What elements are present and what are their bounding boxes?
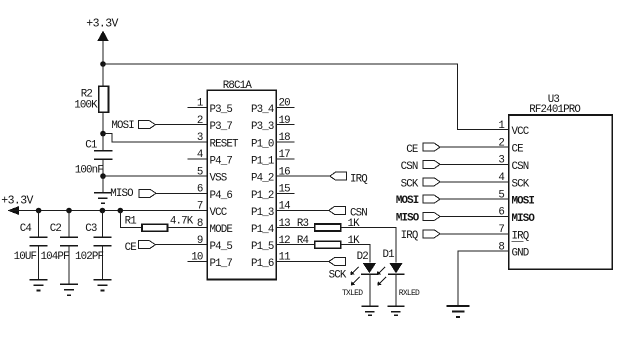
connector MOSI (to U3 pin 5): [396, 195, 440, 207]
svg-text:P4_2: P4_2: [251, 173, 274, 185]
junction C3 on rail: [100, 208, 106, 214]
junction C (VSS node below C1): [100, 173, 106, 179]
svg-text:4: 4: [197, 149, 203, 161]
wire VSS node down to ground: [102, 176, 104, 193]
wire MOSI to pin 2 P3_7: [155, 124, 207, 126]
svg-text:P1_1: P1_1: [251, 156, 274, 168]
connector CE (to U3 pin 2): [406, 143, 440, 156]
svg-text:MOSI: MOSI: [111, 120, 134, 132]
svg-text:17: 17: [279, 149, 291, 161]
capacitor C3: [93, 211, 111, 280]
svg-text:5: 5: [197, 166, 203, 178]
junction B (RESET node): [100, 131, 106, 137]
svg-text:SCK: SCK: [329, 269, 347, 281]
connector MISO (to R8C1A pin 6): [110, 188, 156, 200]
wire D1 cathode to ground: [395, 274, 397, 306]
svg-text:+3.3V: +3.3V: [1, 195, 33, 208]
svg-text:10: 10: [191, 252, 203, 264]
svg-text:20: 20: [279, 98, 291, 110]
svg-text:R4: R4: [297, 235, 309, 247]
capacitor C2: [60, 211, 78, 285]
ground (C3): [93, 280, 111, 291]
wire D2 cathode to ground: [369, 274, 371, 306]
wire pin 11 P1_6 to SCK connector: [276, 261, 329, 263]
svg-text:MISO: MISO: [110, 188, 133, 200]
svg-text:P1_7: P1_7: [210, 258, 233, 270]
connector CSN (to U3 pin 3): [401, 160, 440, 173]
ground (D2): [361, 306, 378, 315]
svg-text:RF2401PRO: RF2401PRO: [529, 104, 580, 116]
svg-text:5: 5: [498, 189, 504, 201]
svg-text:CSN: CSN: [401, 161, 418, 173]
svg-text:MOSI: MOSI: [512, 196, 535, 208]
connector CE (to R8C1A pin 9): [125, 241, 156, 255]
svg-text:R3: R3: [297, 218, 309, 230]
resistor R2: [99, 86, 109, 112]
svg-text:RXLED: RXLED: [399, 289, 420, 298]
wire pin 13 to R3: [276, 227, 315, 229]
junction C2 on rail: [66, 208, 72, 214]
svg-text:P1_6: P1_6: [251, 258, 274, 270]
wire pin 12 to R4: [276, 244, 315, 246]
wire top rail from junction A to U3 pin1 VCC: [103, 64, 509, 130]
svg-text:IRQ: IRQ: [512, 230, 529, 242]
svg-text:P4_7: P4_7: [210, 156, 233, 168]
resistor R1: [142, 224, 168, 231]
svg-text:R8C1A: R8C1A: [223, 80, 253, 92]
svg-text:SCK: SCK: [401, 179, 419, 191]
svg-text:VCC: VCC: [210, 207, 228, 219]
IC U2 R8C1A box: [207, 90, 276, 279]
LED D1: [377, 249, 405, 285]
ground (U3 GND): [447, 306, 470, 317]
connector SCK (to U3 pin 4): [401, 178, 440, 191]
wire MISO to U3 pin 6: [440, 216, 509, 218]
wire rail junction down to R1: [120, 211, 142, 228]
svg-text:2: 2: [498, 137, 504, 149]
capacitor C4: [30, 211, 48, 280]
junction A (top rail / R2 top): [100, 61, 106, 67]
LED D2: [350, 251, 378, 286]
svg-text:R1: R1: [125, 216, 137, 228]
svg-text:C1: C1: [85, 140, 97, 152]
svg-text:P1_3: P1_3: [251, 207, 274, 219]
svg-text:P3_7: P3_7: [210, 121, 233, 133]
connector IRQ (from pin 16): [330, 172, 368, 185]
svg-text:P4_6: P4_6: [210, 190, 233, 202]
underline IRQ (U3): [512, 241, 524, 243]
ground (C2): [60, 284, 78, 295]
svg-text:100K: 100K: [74, 99, 98, 111]
ground (below C1): [94, 193, 112, 204]
svg-text:8: 8: [197, 218, 203, 230]
connector MOSI (to R8C1A pin 2): [111, 120, 155, 132]
pin 19 stub P3_3: [276, 124, 294, 126]
svg-text:RESET: RESET: [210, 138, 240, 150]
svg-text:P4_5: P4_5: [210, 241, 233, 253]
svg-text:4: 4: [498, 172, 504, 184]
resistor R3: [315, 224, 341, 231]
svg-text:15: 15: [279, 184, 291, 196]
svg-text:VSS: VSS: [210, 173, 227, 185]
junction C4 on rail: [36, 208, 42, 214]
wire CSN to U3 pin 3: [440, 163, 509, 165]
wire junction A to R2 top: [102, 64, 104, 86]
svg-text:18: 18: [279, 132, 291, 144]
svg-text:TXLED: TXLED: [342, 289, 363, 298]
svg-text:100nF: 100nF: [75, 165, 104, 177]
connector MISO (to U3 pin 6): [396, 213, 440, 225]
svg-text:C3: C3: [85, 223, 97, 235]
connector SCK (from pin 11): [329, 258, 347, 282]
wire CE to pin 9 P4_5: [155, 244, 207, 246]
svg-text:6: 6: [498, 207, 504, 219]
svg-text:P3_4: P3_4: [251, 104, 274, 116]
svg-text:7: 7: [498, 224, 504, 236]
ground (D1): [387, 306, 404, 315]
svg-text:102PF: 102PF: [75, 251, 104, 263]
svg-text:10UF: 10UF: [14, 251, 37, 263]
svg-text:D1: D1: [383, 249, 395, 261]
svg-text:CE: CE: [406, 144, 418, 156]
svg-text:D2: D2: [357, 251, 369, 263]
svg-text:C4: C4: [20, 223, 32, 235]
capacitor C1: [94, 134, 113, 177]
power symbol +3.3V (top): [86, 18, 118, 42]
svg-text:IRQ: IRQ: [401, 230, 418, 242]
svg-text:1: 1: [498, 120, 504, 132]
svg-text:P1_0: P1_0: [251, 138, 274, 150]
wire RESET node to pin 3 RESET: [103, 134, 207, 142]
wire pin 16 P4_2 to IRQ connector: [276, 175, 330, 177]
svg-text:CE: CE: [512, 144, 524, 156]
wire VSS node to pin 5 VSS: [103, 175, 207, 177]
wire R3 to LED D1 anode: [341, 228, 396, 263]
wire R4 to LED D2 anode: [341, 245, 370, 263]
svg-text:IRQ: IRQ: [350, 173, 367, 185]
wire R2 bottom to junction B: [102, 112, 104, 133]
IC U3 RF2401PRO box: [509, 115, 613, 269]
svg-text:+3.3V: +3.3V: [86, 18, 118, 31]
pin 17 stub P1_1: [276, 158, 294, 160]
svg-text:MOSI: MOSI: [396, 195, 419, 207]
connector CSN (from pin 14): [329, 206, 368, 219]
svg-text:MISO: MISO: [396, 213, 420, 225]
wire IRQ to U3 pin 7: [440, 233, 509, 235]
wire power arrow to junction A: [102, 41, 104, 64]
wire MISO to pin 6 P4_6: [156, 192, 207, 194]
power symbol +3.3V (left rail): [1, 195, 33, 215]
wire U3 pin 8 GND to ground: [458, 251, 509, 305]
svg-text:P1_2: P1_2: [251, 190, 274, 202]
pin 15 stub P1_2: [276, 192, 294, 194]
junction R1 on rail: [118, 208, 124, 214]
svg-text:P3_5: P3_5: [210, 104, 233, 116]
wire +3.3V rail to pin 7 VCC: [8, 210, 207, 212]
resistor R4: [315, 241, 341, 248]
svg-text:CSN: CSN: [512, 161, 529, 173]
svg-text:MISO: MISO: [512, 213, 536, 225]
svg-text:3: 3: [498, 155, 504, 167]
wire R1 to pin 8 MODE: [168, 227, 208, 229]
svg-text:1: 1: [197, 98, 203, 110]
pin 10 stub P1_7: [188, 261, 208, 263]
wire SCK to U3 pin 4: [440, 181, 509, 183]
svg-text:9: 9: [197, 235, 203, 247]
svg-text:4.7K: 4.7K: [170, 216, 194, 228]
pin 1 stub P3_5: [188, 107, 208, 109]
svg-text:19: 19: [279, 115, 291, 127]
svg-text:3: 3: [197, 132, 203, 144]
ground (C4): [30, 280, 48, 291]
pin 18 stub P1_0: [276, 141, 294, 143]
svg-text:GND: GND: [512, 248, 529, 260]
svg-text:P1_4: P1_4: [251, 224, 274, 236]
svg-text:SCK: SCK: [512, 178, 530, 190]
wire pin 14 P1_3 to CSN connector: [276, 209, 329, 211]
svg-text:104PF: 104PF: [41, 251, 70, 263]
wire MOSI to U3 pin 5: [440, 198, 509, 200]
svg-text:VCC: VCC: [512, 126, 530, 138]
svg-text:P3_3: P3_3: [251, 121, 274, 133]
pin 20 stub P3_4: [276, 107, 294, 109]
pin 4 stub P4_7: [188, 158, 208, 160]
svg-text:CE: CE: [125, 242, 137, 254]
svg-text:P1_5: P1_5: [251, 241, 274, 253]
svg-text:MODE: MODE: [210, 224, 233, 236]
svg-text:2: 2: [197, 115, 203, 127]
wire CE to U3 pin 2: [440, 146, 509, 148]
connector IRQ (to U3 pin 7): [401, 230, 440, 242]
svg-text:6: 6: [197, 184, 203, 196]
svg-text:7: 7: [197, 201, 203, 213]
svg-text:C2: C2: [50, 223, 62, 235]
